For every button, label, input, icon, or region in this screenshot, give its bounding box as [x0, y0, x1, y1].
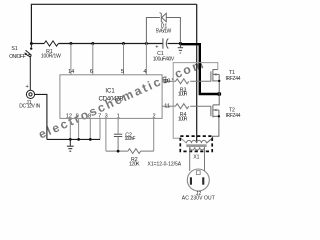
zener diode D1: [146, 13, 180, 44]
svg-text:8: 8: [88, 114, 91, 120]
svg-text:X1=12-0-12/5A: X1=12-0-12/5A: [148, 162, 182, 168]
wire battery plus top rail: [31, 4, 196, 43]
capacitor C2: [114, 134, 122, 151]
mosfet T2: [206, 94, 219, 143]
svg-text:+: +: [25, 84, 28, 90]
wire C1 to ground junction: [168, 43, 181, 45]
svg-text:5: 5: [121, 69, 124, 75]
svg-text:9: 9: [76, 114, 79, 120]
switch S1: [25, 44, 33, 91]
wire VDD rail: [58, 43, 162, 45]
svg-text:X1: X1: [193, 154, 199, 160]
wire R4 to T2 gate: [190, 105, 211, 107]
resistor R3: [176, 79, 189, 84]
svg-text:1: 1: [117, 114, 120, 120]
wire pin3 to R2: [106, 150, 128, 152]
node T1 source T2 drain: [217, 92, 221, 96]
ic IC1 CD4047B: [60, 75, 162, 119]
svg-text:IC1: IC1: [105, 88, 115, 94]
pin 5: [123, 44, 125, 75]
socket J2 AC outlet: [187, 169, 209, 191]
ground supply: [178, 44, 183, 54]
node pin8 ground: [89, 138, 92, 141]
resistor R2: [128, 149, 141, 154]
node ground junction: [179, 42, 182, 45]
connector J1 DC jack: [26, 90, 34, 98]
ground symbol logic: [67, 139, 74, 151]
svg-text:2: 2: [152, 114, 155, 120]
svg-text:IRFZ44: IRFZ44: [226, 113, 241, 119]
resistor R4: [176, 104, 189, 109]
pin 4: [145, 44, 147, 75]
pin 6: [92, 44, 94, 75]
transformer X1: [180, 136, 212, 151]
svg-text:100uF/40V: 100uF/40V: [153, 56, 175, 62]
svg-text:AC 230V OUT: AC 230V OUT: [182, 196, 215, 202]
node rail pin5: [122, 42, 125, 45]
wire R3 to T1 gate: [190, 80, 211, 82]
pin 2: [153, 118, 155, 151]
wire rail to R1: [31, 43, 44, 45]
svg-text:S1: S1: [11, 46, 17, 52]
svg-text:100R/1W: 100R/1W: [41, 53, 61, 59]
svg-text:100R: 100R: [178, 92, 188, 98]
svg-text:120K: 120K: [129, 161, 140, 167]
svg-text:4: 4: [143, 69, 146, 75]
svg-text:10: 10: [164, 79, 170, 85]
wire R2 to pin2: [141, 150, 154, 152]
svg-text:100nF: 100nF: [125, 136, 136, 142]
ground logic rail: [47, 138, 100, 140]
svg-text:12: 12: [66, 114, 72, 120]
node pin9 ground: [77, 138, 80, 141]
node A battery plus junction: [30, 42, 33, 45]
node rail pin4 D1: [145, 42, 148, 45]
node rail pin14: [69, 42, 72, 45]
svg-text:DC 12V IN: DC 12V IN: [19, 104, 40, 110]
node C2 R2: [117, 150, 120, 153]
svg-text:3: 3: [105, 114, 108, 120]
svg-text:7: 7: [98, 114, 101, 120]
wire thick ground bus to power stage: [181, 44, 219, 94]
pin 1: [117, 118, 119, 133]
resistor R1: [44, 41, 58, 46]
svg-text:+: +: [155, 44, 158, 50]
pin 3: [105, 118, 107, 151]
svg-text:14: 14: [68, 69, 74, 75]
pin 11: [162, 105, 175, 107]
capacitor C1: [163, 38, 168, 48]
svg-text:CD4047B: CD4047B: [99, 95, 124, 102]
node rail pin6: [91, 42, 94, 45]
svg-text:IRFZ44: IRFZ44: [226, 76, 241, 82]
wire battery plus down to transformer center tap: [196, 4, 198, 142]
node pin12 ground: [69, 138, 72, 141]
pin 12: [69, 118, 71, 139]
svg-text:6: 6: [90, 69, 93, 75]
wire T1 drain to transformer left: [173, 63, 218, 144]
pin 8: [89, 118, 91, 139]
svg-text:ON/OFF: ON/OFF: [9, 54, 26, 60]
pin 10: [162, 80, 175, 82]
wire J1 to ground rail: [35, 94, 47, 139]
svg-text:100R: 100R: [178, 116, 188, 122]
pin 14: [70, 44, 72, 75]
mosfet T1: [211, 69, 219, 94]
svg-text:5V6/1W: 5V6/1W: [156, 29, 172, 35]
pin 7: [99, 118, 101, 139]
pin 9: [78, 118, 80, 139]
svg-text:11: 11: [164, 104, 170, 110]
